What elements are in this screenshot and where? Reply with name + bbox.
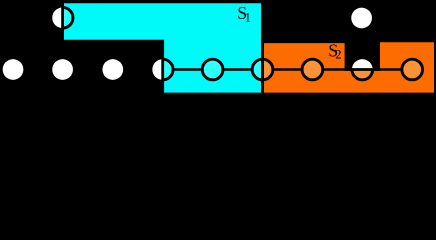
region S1 border [63,2,263,94]
node v4 disc [152,59,173,80]
node v7 disc [302,59,323,80]
node v7 outline [302,59,323,80]
node v3 disc [102,59,123,80]
node v4 outline [152,59,173,80]
region S2 border [263,41,436,94]
node v8 outline [352,59,373,80]
edge v5-v6 [223,68,253,70]
node t1 outline [52,7,73,28]
node t1 disc (top left) [52,7,73,28]
node interiors tinted inside S2 [252,59,422,80]
region S2 fill (orange staircase with notch) [263,41,436,94]
node t2 disc (top right) [351,8,372,29]
svg-text:1: 1 [245,11,251,25]
node v9 disc [402,59,423,80]
node v6 outline [252,59,273,80]
svg-text:2: 2 [335,48,341,62]
node outlines (visible only over regions) [52,7,422,79]
edge v7-v8 [323,68,353,70]
node v2 disc [52,59,73,80]
node v8 disc [352,59,373,80]
node v5 outline [202,59,223,80]
node v6 disc [252,59,273,80]
node v1 disc [3,59,24,80]
node interiors tinted inside S1 [52,7,273,79]
region S1 fill (cyan staircase) [63,2,263,94]
node v9 outline [402,59,423,80]
node v5 disc [202,59,223,80]
edge v6-v7 [273,68,303,70]
edge v8-v9 [372,68,402,70]
edge v4-v5 [173,68,203,70]
